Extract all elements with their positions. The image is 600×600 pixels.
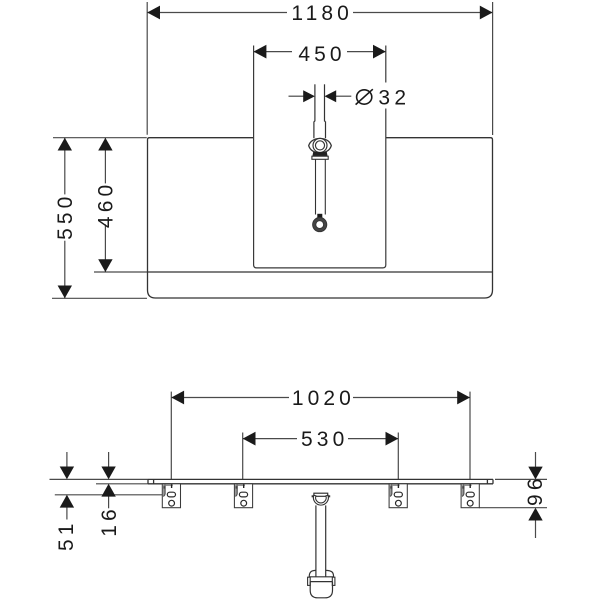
dim 16 arrows: [101, 467, 115, 497]
dim 16: [108, 452, 110, 508]
trap shoulders: [309, 570, 333, 577]
drain ring: [313, 138, 327, 152]
svg-text:16: 16: [98, 505, 121, 537]
svg-text:450: 450: [298, 43, 345, 66]
drain fitting top view: [309, 84, 332, 231]
dim diameter 32 arrows: [303, 90, 336, 102]
dim 51 arrows: [60, 467, 74, 508]
dim 1180 arrows: [147, 6, 492, 20]
drain front view: [308, 493, 335, 598]
dim 450: [254, 51, 386, 53]
dim 96 arrows: [528, 467, 542, 521]
svg-text:51: 51: [55, 519, 78, 551]
drain pipe front: [315, 505, 317, 576]
dim diameter 32 text: [356, 89, 373, 104]
basin cutout: [254, 46, 386, 268]
console top view outline: [148, 138, 493, 298]
dim diameter 32: [289, 95, 352, 97]
drain cap: [314, 493, 328, 496]
svg-text:1020: 1020: [292, 387, 355, 410]
dim 460 arrows: [98, 138, 112, 272]
drain lower ring: [314, 219, 325, 230]
left extension lines 51 16: [50, 479, 163, 494]
drain upper pipe: [314, 84, 326, 138]
dim 550 arrows: [58, 138, 72, 299]
drain base white band: [312, 156, 328, 159]
drain lower pipe: [316, 159, 326, 214]
drain tab: [317, 214, 322, 218]
bracket B1: [162, 484, 180, 508]
bracket B3: [389, 484, 407, 508]
trap right ear: [332, 577, 335, 585]
svg-text:1180: 1180: [291, 2, 353, 25]
drain base dark collar: [312, 152, 327, 156]
trap cup: [310, 582, 332, 598]
svg-text:550: 550: [54, 193, 77, 240]
trap band: [309, 576, 333, 578]
svg-text:530: 530: [301, 428, 348, 451]
dim 1020: [171, 392, 470, 480]
svg-text:96: 96: [523, 478, 546, 510]
svg-text:460: 460: [95, 181, 118, 228]
bracket B4: [461, 484, 479, 508]
dim 96: [479, 452, 547, 538]
drain wing nut: [309, 138, 332, 153]
dim 51: [66, 452, 68, 520]
dim 530 arrows: [243, 432, 399, 446]
dim 530: [243, 433, 399, 480]
console plate front view: [148, 479, 493, 483]
dim 1020 arrows: [171, 391, 470, 405]
dim 1180: [147, 2, 492, 135]
drain horseshoe ring: [313, 495, 328, 505]
dim 460: [94, 138, 148, 272]
console front edge line: [148, 271, 493, 273]
svg-text:32: 32: [378, 87, 410, 110]
dim 550: [52, 138, 147, 299]
dim 450 arrows: [254, 45, 386, 59]
trap left ear: [308, 577, 311, 585]
drain horseshoe ears: [312, 495, 314, 497]
bracket B2: [234, 484, 252, 508]
